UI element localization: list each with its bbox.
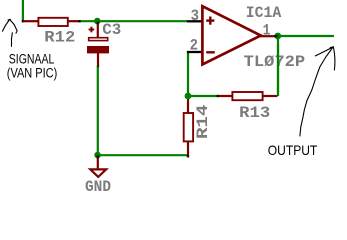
svg-text:C3: C3 <box>102 21 121 39</box>
wire ground junction to R14 <box>98 154 188 156</box>
pin 2 stub <box>187 51 202 53</box>
svg-text:OUTPUT: OUTPUT <box>268 142 318 158</box>
svg-text:3: 3 <box>191 7 199 25</box>
resistor R14 <box>184 96 212 156</box>
wire C3 to ground junction <box>97 67 99 156</box>
wire end cap at output junction <box>274 35 278 37</box>
wire feedback vertical over value text <box>277 44 279 93</box>
svg-text:R13: R13 <box>239 104 270 122</box>
annotation arrow output <box>300 47 335 136</box>
op-amp U1 IC1A <box>187 4 305 71</box>
plus symbol <box>206 19 214 21</box>
node feedback junction <box>185 93 192 100</box>
triangle body <box>202 6 260 64</box>
wire output <box>278 35 335 37</box>
node ground junction <box>94 152 101 159</box>
wire end cap below R14 <box>187 155 189 157</box>
node output junction <box>274 33 281 40</box>
wire end cap left of R13 <box>217 95 220 97</box>
resistor R12 <box>23 18 81 47</box>
svg-text:GND: GND <box>85 178 111 196</box>
svg-text:TLØ72P: TLØ72P <box>244 53 306 71</box>
wire pin2 vertical <box>187 52 189 96</box>
label OUTPUT <box>268 142 318 158</box>
svg-text:SIGNAAL: SIGNAAL <box>9 52 55 67</box>
svg-text:1: 1 <box>263 22 271 40</box>
wire junction to R13 <box>188 95 219 97</box>
label SIGNAAL <box>9 52 55 67</box>
wire junction to pin 3 <box>81 20 188 22</box>
wire input vertical <box>22 0 24 21</box>
ground GND <box>85 155 111 196</box>
pin 3 stub <box>187 20 202 22</box>
pin 1 output stub <box>260 35 275 37</box>
svg-text:(VAN PIC): (VAN PIC) <box>7 65 58 80</box>
minus symbol <box>206 51 215 53</box>
svg-text:2: 2 <box>190 37 198 55</box>
svg-text:R12: R12 <box>44 29 75 47</box>
resistor R13 <box>219 92 278 122</box>
annotation arrow input <box>2 19 17 46</box>
node junction C3/R12 <box>94 18 101 25</box>
wire corner end cap <box>22 20 25 23</box>
svg-text:R14: R14 <box>194 104 212 139</box>
capacitor C3 <box>87 21 121 67</box>
wire feedback vertical <box>277 36 279 96</box>
wire end cap right of R12 <box>78 20 81 22</box>
svg-text:IC1A: IC1A <box>246 4 282 22</box>
label VAN PIC <box>7 65 58 80</box>
wire end cap below C3 <box>97 66 99 68</box>
